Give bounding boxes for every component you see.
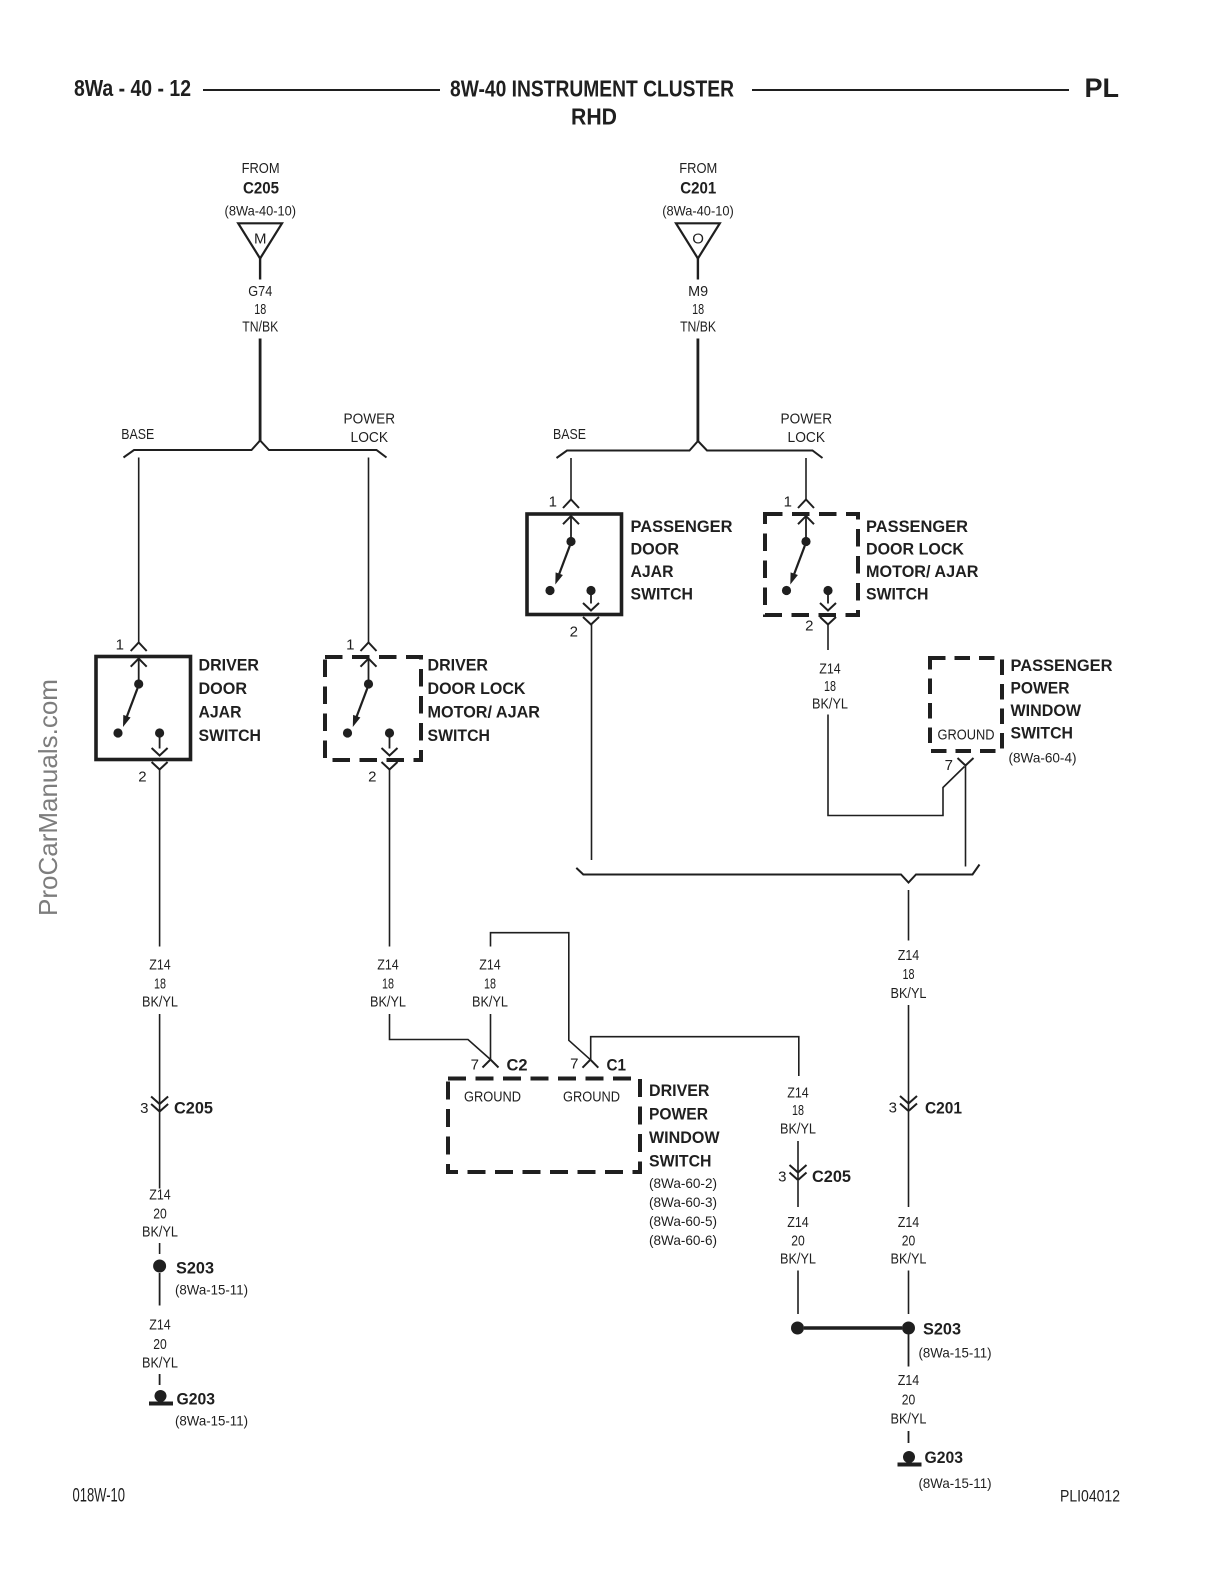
off-page connector triangle M (main harness) [238,223,282,258]
svg-text:BK/YL: BK/YL [891,1251,927,1268]
svg-text:O: O [692,231,704,248]
svg-text:SWITCH: SWITCH [1011,724,1074,743]
svg-text:1: 1 [346,637,354,654]
node label POWER LOCK (driver) [344,410,396,446]
pin 2 chevron (passenger door ajar switch) [583,617,599,625]
wire label Z14 18 BK/YL (C1 ground column) [780,1085,816,1138]
svg-text:BK/YL: BK/YL [142,993,178,1010]
svg-text:018W-10: 018W-10 [73,1486,126,1507]
svg-text:C205: C205 [174,1099,213,1118]
svg-text:PLI04012: PLI04012 [1060,1488,1120,1506]
wire segment to splice S203 (right) [908,1271,910,1315]
svg-text:PL: PL [1085,73,1120,103]
svg-text:WINDOW: WINDOW [1011,701,1082,720]
svg-text:7: 7 [471,1057,479,1074]
wire from passenger door ajar pin 2 down to merge bar [591,625,593,861]
node label POWER LOCK (passenger) [781,410,833,446]
svg-text:C1: C1 [607,1056,627,1075]
svg-text:PASSENGER: PASSENGER [866,517,968,536]
wire BASE branch down to driver door ajar switch pin 1 [138,458,140,643]
wire split bar (right, to BASE / POWER LOCK) [557,441,823,458]
svg-text:BK/YL: BK/YL [142,1224,178,1241]
svg-text:BASE: BASE [121,426,154,443]
svg-text:20: 20 [153,1206,167,1223]
splice S203 (right) [902,1322,915,1335]
feed wire G74 down to split [259,339,262,442]
svg-text:18: 18 [792,1102,804,1119]
svg-text:18: 18 [154,975,166,992]
component label DRIVER DOOR AJAR SWITCH [199,656,262,746]
svg-text:Z14: Z14 [898,1214,920,1231]
svg-text:C201: C201 [925,1099,962,1118]
svg-text:(8Wa-60-2): (8Wa-60-2) [649,1175,717,1191]
wire label M9 18 TN/BK [680,283,716,336]
connector C201 source label FROM C201 (8Wa-40-10) [662,160,734,218]
terminal chevron at passenger door ajar switch pin 1 [563,500,579,509]
wire stub below triangle M [259,259,261,280]
splice link wire to S203 [804,1326,902,1330]
passenger door ajar switch internal contacts and lever [545,516,599,611]
wire stub to ground G203 (right) [908,1431,910,1443]
svg-text:(8Wa-60-5): (8Wa-60-5) [649,1213,717,1229]
svg-text:(8Wa-15-11): (8Wa-15-11) [919,1345,992,1361]
wire stub to ground G203 (left) [159,1374,161,1385]
driver power window switch dashed box [448,1079,640,1173]
ground G203 symbol (right) [898,1451,922,1467]
svg-text:MOTOR/ AJAR: MOTOR/ AJAR [866,562,979,581]
svg-text:(8Wa-60-3): (8Wa-60-3) [649,1194,717,1210]
switch driver door lock motor/ajar switch dashed box [325,657,421,760]
svg-text:BASE: BASE [553,426,586,443]
svg-text:G74: G74 [248,283,272,300]
svg-text:(8Wa-40-10): (8Wa-40-10) [662,202,734,218]
svg-text:8Wa - 40 - 12: 8Wa - 40 - 12 [74,75,191,101]
svg-text:BK/YL: BK/YL [370,993,406,1010]
svg-text:BK/YL: BK/YL [142,1355,178,1372]
svg-text:AJAR: AJAR [199,703,242,722]
wire label Z14 20 BK/YL (middle column) [780,1214,816,1268]
svg-text:C201: C201 [680,178,716,197]
wire segment below C205 (left) [159,1112,161,1189]
wire POWER LOCK branch down to passenger door lock motor pin 1 [805,458,807,500]
wire Z14 from driver door lock motor pin 2 down [389,770,391,947]
svg-text:BK/YL: BK/YL [812,696,848,713]
svg-text:Z14: Z14 [377,957,399,974]
svg-text:POWER: POWER [781,410,833,427]
wire split bar (left, to BASE / POWER LOCK) [124,441,387,458]
svg-text:2: 2 [570,624,578,641]
svg-text:RHD: RHD [571,104,617,130]
svg-text:1: 1 [784,494,792,511]
wire segment to C205 [159,1014,161,1112]
ground G203 symbol (left) [149,1390,173,1406]
svg-text:BK/YL: BK/YL [780,1251,816,1268]
svg-text:Z14: Z14 [898,947,920,964]
component label DRIVER DOOR LOCK MOTOR/ AJAR SWITCH [428,656,541,746]
svg-text:PASSENGER: PASSENGER [631,517,733,536]
svg-text:18: 18 [824,678,836,695]
off-page connector triangle O [676,223,720,258]
svg-text:18: 18 [382,975,394,992]
svg-text:BK/YL: BK/YL [472,993,508,1010]
wire jog from door lock motor column into C2 pin 7 [390,1014,491,1060]
svg-text:TN/BK: TN/BK [242,319,278,336]
terminal chevron at C2 pin 7 [483,1060,499,1068]
wire label Z14 20 BK/YL (right column lower) [891,1372,927,1428]
in-line connector C205 (left), cavity 3 [151,1097,168,1112]
terminal chevron at driver door lock motor pin 1 [361,643,377,652]
svg-text:FROM: FROM [679,160,717,177]
wire merge bar (passenger grounds) [576,865,979,883]
svg-text:AJAR: AJAR [631,562,674,581]
svg-text:BK/YL: BK/YL [891,1411,927,1428]
pin 2 chevron (passenger door lock motor) [820,617,836,625]
svg-text:DOOR: DOOR [631,540,680,559]
passenger door lock motor/ajar switch dashed box [765,514,858,615]
wire label Z14 20 BK/YL (left column lower) [142,1317,178,1372]
wire segment below C201 [908,1112,910,1207]
svg-text:1: 1 [549,494,557,511]
driver door ajar switch internal contacts and lever [113,659,167,756]
svg-text:SWITCH: SWITCH [428,726,491,745]
svg-text:POWER: POWER [649,1105,708,1124]
svg-text:Z14: Z14 [149,957,171,974]
wire segment to C205 (middle) [797,1141,799,1180]
wire label Z14 18 BK/YL (passenger door lock column) [812,661,848,713]
wire POWER LOCK branch down to driver door lock motor pin 1 [368,458,370,643]
svg-text:SWITCH: SWITCH [631,585,694,604]
svg-text:G203: G203 [925,1448,964,1467]
svg-text:3: 3 [889,1100,897,1117]
component label PASSENGER DOOR AJAR SWITCH [631,517,733,604]
svg-text:2: 2 [368,769,376,786]
svg-text:GROUND: GROUND [563,1089,620,1106]
svg-text:DRIVER: DRIVER [199,656,260,675]
svg-text:LOCK: LOCK [351,429,389,446]
wire segment below C205 (middle) [797,1181,799,1207]
pin 2 chevron (driver door ajar switch) [152,762,168,770]
terminal chevron at driver door ajar switch pin 1 [131,643,147,652]
svg-text:C205: C205 [243,178,279,197]
svg-text:(8Wa-60-6): (8Wa-60-6) [649,1232,717,1248]
svg-text:M9: M9 [688,283,708,300]
svg-text:C205: C205 [812,1167,851,1186]
svg-text:(8Wa-15-11): (8Wa-15-11) [175,1413,248,1429]
wire label Z14 18 BK/YL (left column) [142,957,178,1011]
svg-text:(8Wa-15-11): (8Wa-15-11) [175,1282,248,1298]
svg-text:20: 20 [791,1233,805,1250]
in-line connector C201, cavity 3 [900,1096,917,1111]
svg-text:Z14: Z14 [819,661,841,678]
pin 7 chevron (passenger power window switch) [958,758,974,766]
terminal chevron at C1 pin 7 [583,1060,599,1068]
wire from C1 pin 7 to right Z14 column [591,1037,799,1076]
switch S driver door ajar switch box [96,657,191,760]
svg-text:3: 3 [140,1100,148,1117]
svg-text:2: 2 [805,618,813,635]
svg-text:M: M [254,231,267,248]
svg-text:Z14: Z14 [787,1214,809,1231]
svg-text:20: 20 [902,1233,916,1250]
svg-text:Z14: Z14 [787,1085,809,1102]
wire segment below S203 (left) [159,1273,161,1306]
connector C205 source label FROM C205 (8Wa-40-10) [225,160,297,218]
in-line connector C205 (middle), cavity 3 [790,1165,807,1180]
component label PASSENGER POWER WINDOW SWITCH [1011,656,1113,743]
feed wire M9 down to split [697,339,700,442]
wire Z14 from driver door ajar switch pin 2 down [159,770,161,947]
splice S203 (left) [153,1260,166,1273]
svg-text:WINDOW: WINDOW [649,1128,720,1147]
svg-text:C2: C2 [507,1056,528,1075]
svg-text:LOCK: LOCK [788,429,826,446]
wire BASE branch down to passenger door ajar switch pin 1 [570,458,572,500]
svg-text:18: 18 [903,966,915,983]
svg-text:BK/YL: BK/YL [780,1121,816,1138]
svg-text:S203: S203 [176,1259,214,1278]
svg-text:7: 7 [570,1056,578,1073]
header rule left [203,89,440,91]
wire label Z14 20 BK/YL (right column) [891,1214,927,1268]
component label DRIVER POWER WINDOW SWITCH [649,1081,720,1171]
svg-text:BK/YL: BK/YL [891,985,927,1002]
svg-text:(8Wa-15-11): (8Wa-15-11) [919,1475,992,1491]
svg-text:1: 1 [116,637,124,654]
svg-text:SWITCH: SWITCH [866,585,929,604]
wire segment below S203 (right) [908,1335,910,1367]
passenger power window switch dashed box [930,658,1002,751]
splice junction dot (middle) [791,1322,804,1335]
wire label Z14 18 BK/YL (C2 feed column) [472,957,508,1011]
svg-text:(8Wa-40-10): (8Wa-40-10) [225,202,297,218]
passenger door lock motor switch internal contacts and lever [782,516,836,611]
svg-text:18: 18 [254,301,266,318]
svg-text:18: 18 [484,975,496,992]
svg-text:PASSENGER: PASSENGER [1011,656,1113,675]
wire segment to C201 [908,1005,910,1111]
wire below merge bar [908,890,910,941]
header rule right [752,89,1069,91]
wire route from Z14 label to passenger window switch pin 7 [828,715,965,816]
svg-text:G203: G203 [177,1390,216,1409]
wire label G74 18 TN/BK [242,283,278,336]
svg-text:DOOR LOCK: DOOR LOCK [428,679,527,698]
svg-text:18: 18 [692,301,704,318]
svg-text:3: 3 [778,1169,786,1186]
wire segment to splice dot (middle) [797,1271,799,1315]
wire segment to splice S203 (left) [159,1243,161,1254]
wire label Z14 18 BK/YL (door lock motor column) [370,957,406,1011]
wire label Z14 18 BK/YL (right column) [891,947,927,1002]
wire from pin 7 down into merge bar [965,766,967,867]
svg-text:POWER: POWER [1011,679,1070,698]
svg-text:POWER: POWER [344,410,396,427]
svg-text:SWITCH: SWITCH [649,1152,712,1171]
component label PASSENGER DOOR LOCK MOTOR/ AJAR SWITCH [866,517,979,604]
svg-text:Z14: Z14 [898,1372,920,1389]
svg-text:DRIVER: DRIVER [428,656,489,675]
svg-text:20: 20 [153,1336,167,1353]
svg-text:S203: S203 [923,1320,961,1339]
svg-text:GROUND: GROUND [938,727,995,744]
svg-text:DOOR: DOOR [199,679,248,698]
svg-text:(8Wa-60-4): (8Wa-60-4) [1009,750,1077,766]
svg-text:20: 20 [902,1392,916,1409]
svg-text:2: 2 [138,769,146,786]
bridge wire joining C2 and C1 feeds [491,933,591,1060]
svg-text:ProCarManuals.com: ProCarManuals.com [33,679,63,916]
svg-text:GROUND: GROUND [464,1089,521,1106]
svg-text:Z14: Z14 [149,1317,171,1334]
wire stub below passenger door lock motor pin 2 [827,625,829,651]
svg-text:Z14: Z14 [479,957,501,974]
svg-text:DOOR LOCK: DOOR LOCK [866,540,965,559]
svg-text:MOTOR/ AJAR: MOTOR/ AJAR [428,703,541,722]
wire stub below triangle O [697,259,699,280]
wire label Z14 20 BK/YL (left column) [142,1187,178,1241]
terminal chevron at passenger door lock motor pin 1 [798,500,814,509]
passenger door ajar switch box [527,514,622,615]
svg-text:8W-40 INSTRUMENT CLUSTER: 8W-40 INSTRUMENT CLUSTER [450,76,734,102]
driver door lock motor switch internal contacts and lever [343,659,398,756]
component references (8Wa-60-2/3/5/6) [649,1175,717,1248]
svg-text:7: 7 [945,757,953,774]
svg-text:FROM: FROM [242,160,280,177]
svg-text:TN/BK: TN/BK [680,319,716,336]
svg-text:DRIVER: DRIVER [649,1081,710,1100]
pin 2 chevron (driver door lock motor) [382,762,398,770]
svg-text:SWITCH: SWITCH [199,726,262,745]
svg-text:Z14: Z14 [149,1187,171,1204]
